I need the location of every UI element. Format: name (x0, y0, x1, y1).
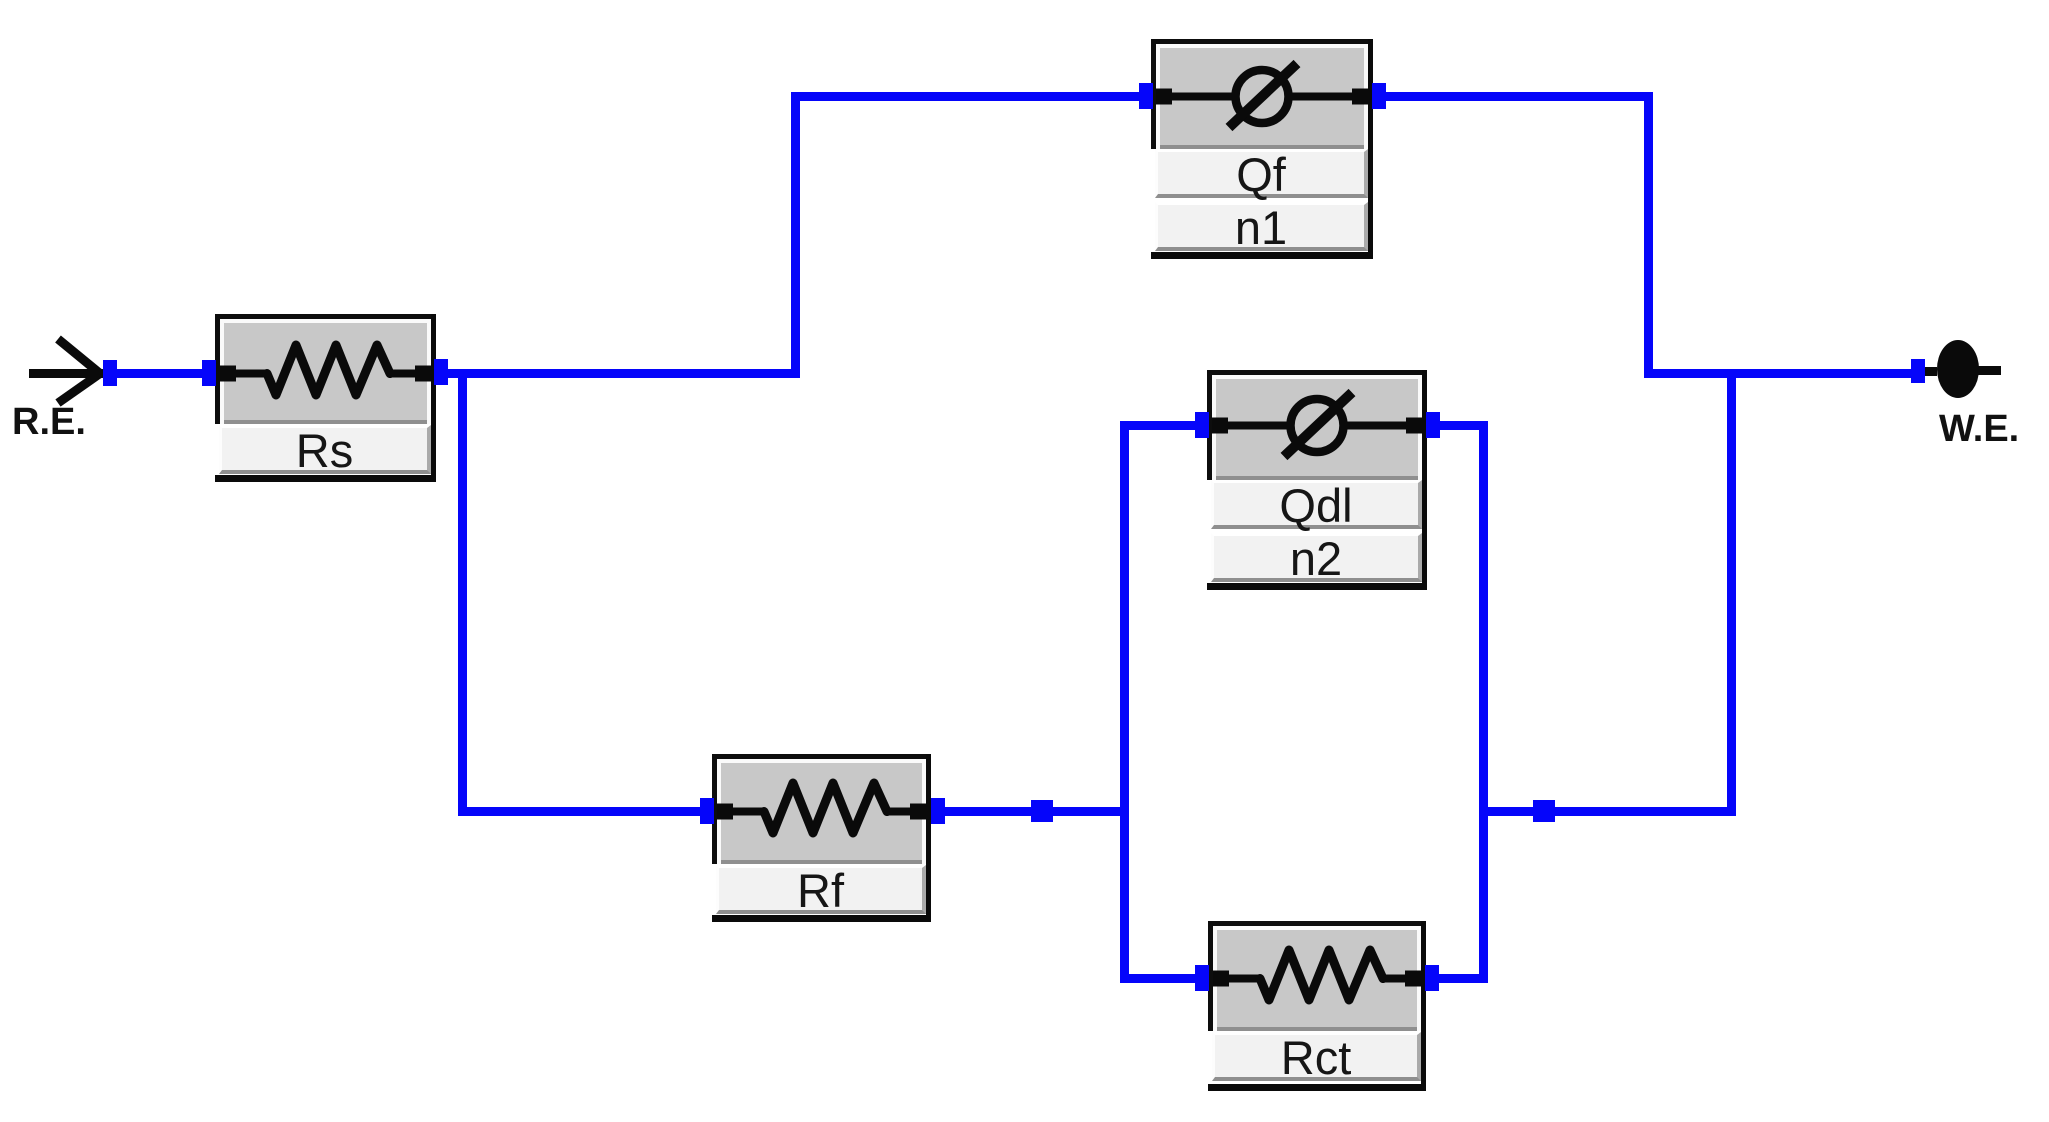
wire Rf to parallel block (929, 807, 1129, 816)
wire vertical up to main line (1727, 369, 1736, 816)
node Rs left (202, 360, 216, 386)
resistor Rct (1208, 921, 1426, 1091)
wire parallel block to right corner (1479, 807, 1736, 816)
wire top branch to Qf (791, 92, 1156, 101)
CPE Qdl (1207, 370, 1427, 590)
node Qf left (1139, 83, 1153, 109)
node Rct right (1425, 965, 1439, 991)
wire Qdl right to riser (1425, 421, 1488, 430)
wire left riser of parallel block (1120, 421, 1129, 983)
resistor Rs (215, 314, 436, 482)
resistor Rf (712, 754, 931, 922)
node Rf left (700, 798, 714, 824)
wire right riser of parallel block (1479, 421, 1488, 983)
W.E. output terminal dot (1915, 335, 2025, 405)
CPE Qf (1151, 39, 1373, 259)
node Qdl right (1426, 412, 1440, 438)
node W.E. (1911, 359, 1925, 383)
node Qf right (1372, 83, 1386, 109)
wire R.E. to Rs (100, 369, 216, 378)
wire to Qdl left (1120, 421, 1210, 430)
R.E. input terminal arrow (20, 330, 115, 415)
node Rf right (931, 798, 945, 824)
wire vertical down to lower branch (458, 369, 467, 816)
node Qdl left (1195, 412, 1209, 438)
wire Rs to top-branch corner (436, 369, 800, 378)
node Rs right (434, 359, 448, 385)
wire Rct right to riser (1424, 974, 1488, 983)
wire main right to W.E. (1644, 369, 1913, 378)
wire vertical down from top branch (1644, 92, 1653, 378)
wire vertical riser up to top branch (791, 92, 800, 378)
node junction before right corner (1533, 800, 1555, 822)
node Rct left (1195, 965, 1209, 991)
label W.E. (1939, 410, 2019, 448)
label R.E. (12, 403, 86, 441)
node junction after Rf (1031, 800, 1053, 822)
wire to Rct left (1120, 974, 1210, 983)
node R.E. (103, 360, 117, 386)
wire Qf to right corner (1368, 92, 1653, 101)
wire lower branch to Rf (458, 807, 715, 816)
